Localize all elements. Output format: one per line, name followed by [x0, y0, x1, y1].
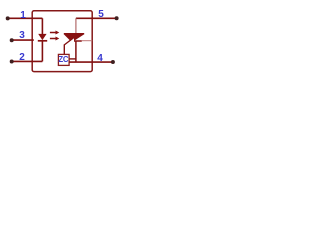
coupling arrow 1 [50, 32, 56, 34]
pin number 1 [16, 11, 30, 21]
triac Q1 body left triangle [64, 34, 77, 41]
ZC box [58, 54, 69, 65]
triac Q1 bottom bar [74, 40, 82, 42]
pin 1 dot [6, 16, 10, 20]
pin number 3 [15, 31, 29, 41]
pin number 5 [94, 10, 108, 20]
pin 5 dot [115, 16, 119, 20]
coupling arrow 2 [50, 38, 56, 40]
pin 5 wire [76, 17, 117, 19]
triac Q1 gate diagonal (under body) [64, 34, 78, 45]
pin number 4 [93, 54, 107, 64]
pin 3 wire [11, 39, 34, 41]
LED D1 cathode lead [41, 41, 43, 61]
wire bowtie to box edge [82, 40, 92, 42]
pin 2 dot [10, 60, 14, 64]
pin number 2 [15, 53, 29, 63]
triac Q1 top terminal [75, 18, 77, 34]
ZC label [58, 56, 69, 64]
pin 3 dot [10, 38, 14, 42]
wire ZC to triac bottom [69, 58, 76, 60]
triac Q1 body right triangle [74, 34, 84, 41]
pin 4 wire [69, 61, 113, 63]
LED D1 anode lead [41, 18, 43, 34]
triac Q1 bottom terminal [75, 41, 77, 62]
pin 4 dot [111, 60, 115, 64]
pin 2 wire [11, 60, 43, 62]
gate vertical to ZC [63, 44, 65, 54]
LED D1 triangle [38, 34, 46, 40]
LED D1 cathode bar [38, 40, 47, 42]
body box U1 (opto-triac SSR outline) [32, 11, 92, 72]
pin 1 wire [8, 17, 42, 19]
triac Q1 top bar [64, 33, 84, 35]
